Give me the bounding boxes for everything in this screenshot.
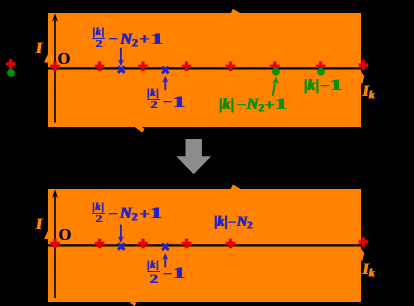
orange wedge arrowhead from label I_k into top region right edge xyxy=(360,70,364,84)
bottom orange region (interval I, panel 2) xyxy=(48,189,361,302)
top red plus marker 5 xyxy=(226,62,236,72)
top green label |k|-1 xyxy=(304,77,338,93)
orange wedge arrowhead from label I_k into bottom region right edge xyxy=(360,247,364,261)
bottom panel vertical axis arrowhead xyxy=(52,189,58,198)
legend green dot marker (left margin) xyxy=(7,69,15,77)
top panel vertical axis xyxy=(54,20,56,123)
top red plus marker 6 (above green dot |k|-N2+1) xyxy=(270,62,280,72)
label I_k (orange, bottom panel right) xyxy=(363,261,375,279)
top green up-arrow from label |k|-N2+1 to green dot xyxy=(273,84,275,96)
top blue up-arrow from label |k|/2-1 xyxy=(164,81,166,90)
label I_k (orange, top panel right) xyxy=(363,83,375,101)
orange wedge arrowhead from label I into top region xyxy=(44,54,48,63)
top blue x marker at |k|/2-N2+1 xyxy=(118,66,125,73)
bottom blue down-arrow from label |k|/2-N2+1 xyxy=(120,225,122,238)
top blue label -1 part xyxy=(160,94,181,110)
orange wedge arrowhead from label I into bottom region xyxy=(44,230,48,239)
top orange region (interval I, panel 1) xyxy=(48,13,361,127)
top red plus marker 4 xyxy=(182,62,192,72)
top red plus marker 7 (above green dot |k|-1) xyxy=(316,62,326,72)
bottom red plus at origin O xyxy=(50,239,60,249)
top blue down-arrow from label |k|/2-N2+1 xyxy=(120,48,122,61)
top red plus marker 2 xyxy=(95,62,105,72)
top green label |k|-N2+1 xyxy=(219,96,283,114)
orange bump arrowhead on top edge of bottom region xyxy=(231,184,242,189)
bottom blue label -N2+1 part xyxy=(106,205,159,223)
bottom panel horizontal number line xyxy=(48,244,364,246)
label I (orange, top panel) xyxy=(36,40,42,56)
orange diagonal arrow mark below bottom-left of top region xyxy=(136,125,144,131)
bottom red plus marker 4 xyxy=(182,239,192,249)
bottom blue label |k|/2 fraction part (second label) xyxy=(147,261,160,284)
top green dot at |k|-N2+1 xyxy=(272,68,280,76)
top panel vertical axis arrowhead xyxy=(52,13,58,22)
label O (top origin) xyxy=(57,51,70,68)
top red plus at origin O xyxy=(50,62,60,72)
legend red plus marker (left margin) xyxy=(6,59,16,69)
orange bump arrowhead on top edge of top region xyxy=(231,9,242,14)
bottom red plus marker 6 (right end, at I_k) xyxy=(359,237,369,247)
top red plus marker 8 (right end, at I_k) xyxy=(359,60,369,70)
top red plus marker 3 xyxy=(138,62,148,72)
bottom red plus marker 2 xyxy=(95,239,105,249)
bottom blue up-arrow from label |k|/2-1 xyxy=(164,258,166,267)
top green dot at |k|-1 xyxy=(317,68,325,76)
top blue label |k|/2 fraction part (second label) xyxy=(147,89,160,110)
orange diagonal arrow mark below bottom-left of bottom region xyxy=(131,302,136,305)
top panel horizontal number line xyxy=(48,67,364,69)
bottom red plus marker 3 xyxy=(138,239,148,249)
bottom blue label |k|-N2 xyxy=(214,215,252,232)
bottom panel vertical axis xyxy=(54,196,56,298)
label O (bottom origin) xyxy=(58,227,71,244)
bottom blue label |k|/2 fraction part xyxy=(92,203,105,224)
bottom blue x marker at |k|/2-1 xyxy=(162,244,169,251)
big gray arrow between panels xyxy=(176,139,211,174)
bottom blue label -1 part xyxy=(160,265,181,281)
bottom red plus marker 5 (at |k|-N2) xyxy=(226,239,236,249)
top blue label -N2+1 part xyxy=(106,31,159,49)
label I (orange, bottom panel) xyxy=(36,216,42,232)
top blue x marker at |k|/2-1 xyxy=(162,67,169,74)
top blue label |k|/2 fraction part xyxy=(92,28,105,49)
bottom blue x marker at |k|/2-N2+1 xyxy=(118,243,125,250)
